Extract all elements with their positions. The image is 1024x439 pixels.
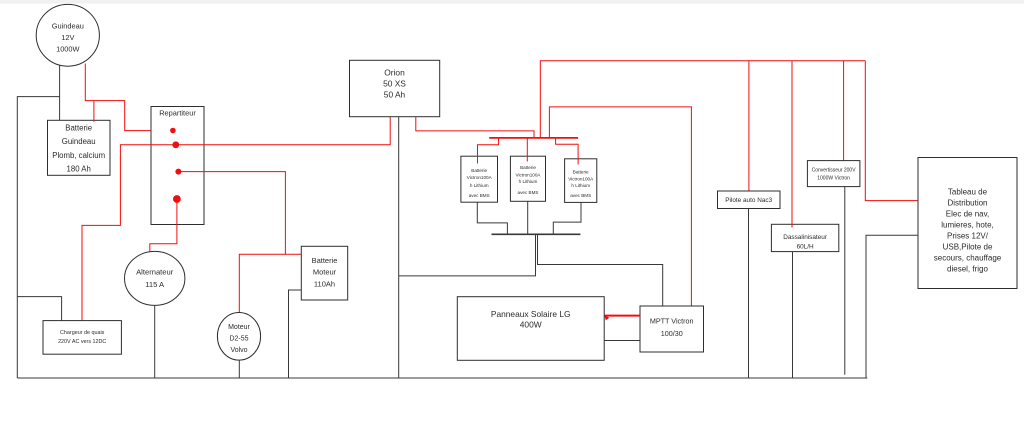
wire black pilote auto to bus <box>748 209 750 379</box>
node junction 2 <box>172 141 179 148</box>
wire black lithium negative bus <box>492 233 581 235</box>
engine "Moteur D2-55 Volvo" <box>217 313 260 361</box>
wire red main feed riser and top distribution line <box>540 61 865 138</box>
wire red feed to dessalinisateur <box>791 61 793 228</box>
svg-text:h Lithium: h Lithium <box>519 179 538 184</box>
wire red guindeau positive to repartiteur and battery <box>85 64 172 131</box>
svg-text:Guindeau: Guindeau <box>62 137 96 146</box>
wire black rail branch to chargeur <box>17 297 61 321</box>
alternator "Alternateur 115 A" <box>125 251 185 305</box>
svg-text:Batterie: Batterie <box>471 168 487 173</box>
svg-text:lumieres, hote,: lumieres, hote, <box>941 221 993 230</box>
node junction 4 <box>173 195 181 203</box>
wire red bus riser to mptt <box>549 107 691 306</box>
svg-text:Convertisseur 200V: Convertisseur 200V <box>812 167 857 173</box>
svg-text:Batterie: Batterie <box>573 169 589 174</box>
battery "Batterie Moteur 110Ah" <box>301 246 347 300</box>
svg-text:USB,Pilote de: USB,Pilote de <box>943 243 993 252</box>
battery "Batterie Victron 100Ah Lithium avec BMS" 1 <box>461 156 498 202</box>
svg-text:Panneaux Solaire LG: Panneaux Solaire LG <box>491 309 571 319</box>
wire black alternateur to bus <box>154 305 156 378</box>
watermaker "Dassalinisateur 60L/H" <box>771 224 838 251</box>
svg-text:400W: 400W <box>520 319 542 329</box>
svg-text:avec BMS: avec BMS <box>570 193 591 198</box>
svg-text:220V AC vers 12DC: 220V AC vers 12DC <box>58 339 106 345</box>
wire red orion to lithium bus <box>416 117 534 138</box>
svg-text:Moteur: Moteur <box>313 268 337 277</box>
battery "Batterie Victron 100Ah Lithium avec BMS" 2 <box>510 156 545 201</box>
windlass motor "Guindeau 12V 1000W" <box>36 4 99 66</box>
svg-text:h Lithium: h Lithium <box>470 183 489 188</box>
svg-text:50 Ah: 50 Ah <box>384 89 406 99</box>
node junction 1 <box>170 128 176 134</box>
svg-text:Repartiteur: Repartiteur <box>159 108 196 117</box>
svg-text:Pilote auto Nac3: Pilote auto Nac3 <box>725 197 772 204</box>
wire red lithium positive bus <box>489 137 578 139</box>
charger "Chargeur de quais 220V AC vers 12DC" <box>43 321 121 355</box>
svg-text:Moteur: Moteur <box>228 324 250 331</box>
wire black convertisseur down <box>844 187 846 375</box>
wire black battery bus branch to orion negative <box>399 234 536 276</box>
svg-text:Chargeur de quais: Chargeur de quais <box>60 330 105 336</box>
svg-text:Victron100A: Victron100A <box>467 175 493 180</box>
svg-text:Dassalinisateur: Dassalinisateur <box>783 234 828 241</box>
svg-text:100/30: 100/30 <box>661 329 683 338</box>
svg-text:Batterie: Batterie <box>312 256 338 265</box>
solar panel "Panneaux Solaire LG 400W" <box>457 297 604 361</box>
svg-text:Batterie: Batterie <box>520 165 536 170</box>
autopilot "Pilote auto Nac3" <box>718 191 781 209</box>
solar regulator "MPTT Victron 100/30" <box>640 306 704 352</box>
wire black negative rail left side <box>17 97 59 378</box>
svg-text:avec BMS: avec BMS <box>518 190 539 195</box>
wire red repartiteur to alternateur <box>150 199 177 252</box>
svg-text:Plomb, calcium: Plomb, calcium <box>52 151 105 160</box>
wire black moteur to bus <box>238 360 240 378</box>
svg-text:Alternateur: Alternateur <box>136 267 174 276</box>
wire red feed to tableau <box>865 61 918 201</box>
wire black tableau to bus <box>866 235 918 378</box>
svg-text:Volvo: Volvo <box>230 347 247 354</box>
wire red orion to repartiteur and chargeur <box>82 117 390 321</box>
wire black lithium bus to mptt <box>538 234 663 306</box>
svg-text:Victron100A: Victron100A <box>568 177 594 182</box>
svg-text:Batterie: Batterie <box>65 124 92 133</box>
svg-text:secours, chauffage: secours, chauffage <box>934 254 1002 263</box>
svg-text:Prises 12V/: Prises 12V/ <box>947 232 989 241</box>
wire red tap to lithium battery 3 <box>556 138 579 165</box>
svg-text:Distribution: Distribution <box>947 199 987 208</box>
svg-text:Elec de nav,: Elec de nav, <box>946 210 989 219</box>
node junction 3 <box>175 169 181 175</box>
svg-text:60L/H: 60L/H <box>797 244 814 251</box>
wire red feed to convertisseur <box>843 61 845 161</box>
wire black panneaux to mptt <box>604 340 640 342</box>
wire black dessalinisateur to bus <box>792 252 794 378</box>
svg-text:diesel, frigo: diesel, frigo <box>947 265 988 274</box>
wire red tap to lithium battery 1 <box>478 138 499 164</box>
svg-text:180 Ah: 180 Ah <box>67 164 91 173</box>
inverter "Convertisseur 200V 1000W Victron" <box>807 161 860 187</box>
svg-text:50 XS: 50 XS <box>383 78 406 88</box>
battery "Batterie Victron 100Ah Lithium avec BMS" 3 <box>565 159 597 203</box>
wire red repartiteur to moteur and batterie moteur <box>178 172 301 313</box>
busbar "Repartiteur" <box>151 107 204 225</box>
svg-text:h Lithium: h Lithium <box>571 183 590 188</box>
svg-text:Victron100A: Victron100A <box>516 173 542 178</box>
svg-text:1000W: 1000W <box>56 45 79 54</box>
svg-text:115 A: 115 A <box>145 280 165 289</box>
wire black bottom negative bus <box>17 377 867 379</box>
svg-text:110Ah: 110Ah <box>314 279 335 288</box>
svg-text:Tableau de: Tableau de <box>948 188 988 197</box>
wire black lithium battery 2 negative <box>527 201 529 234</box>
svg-text:avec BMS: avec BMS <box>469 193 490 198</box>
svg-text:12V: 12V <box>61 33 74 42</box>
svg-text:Orion: Orion <box>384 67 405 77</box>
wire black guindeau negative to battery <box>59 64 61 120</box>
distribution panel "Tableau de Distribution" <box>918 158 1017 289</box>
wire black lithium battery 1 negative <box>477 202 507 234</box>
battery "Batterie Guindeau Plomb, calcium 180 Ah" <box>48 120 111 175</box>
wire black orion negative to bus <box>398 117 400 378</box>
arrowhead red at panneaux <box>604 315 609 320</box>
wire black batterie moteur to bus <box>289 290 302 378</box>
svg-text:D2-55: D2-55 <box>229 336 248 343</box>
wire red panneaux to mptt <box>605 315 641 317</box>
wire red tap to lithium battery 2 <box>526 138 528 162</box>
svg-text:1000W Victron: 1000W Victron <box>817 176 850 182</box>
converter "Orion 50 XS 50 Ah" <box>350 60 440 116</box>
svg-text:MPTT Victron: MPTT Victron <box>650 317 694 326</box>
wire black lithium battery 3 negative <box>553 202 581 234</box>
wire red feed to pilote auto <box>748 61 750 191</box>
svg-text:Guindeau: Guindeau <box>52 22 84 31</box>
